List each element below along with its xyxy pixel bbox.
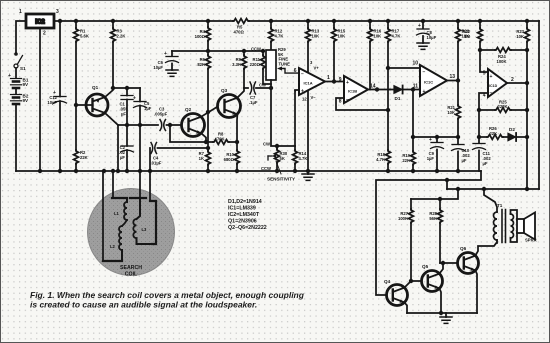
op-amp IC1b LM339 bbox=[339, 76, 376, 105]
svg-text:10K: 10K bbox=[374, 34, 382, 39]
svg-text:Q2: Q2 bbox=[185, 107, 192, 112]
svg-text:CCW: CCW bbox=[251, 47, 261, 52]
wire emitter ground bus bbox=[407, 312, 477, 314]
capacitor C1 .055uF bbox=[120, 88, 134, 125]
wire integrator node bbox=[413, 136, 458, 138]
svg-text:9V: 9V bbox=[23, 98, 30, 103]
svg-text:2: 2 bbox=[43, 31, 46, 37]
battery B1 9V bbox=[8, 68, 29, 88]
transistor Q4 2N2222 bbox=[384, 279, 408, 306]
wire R23 node down to output bbox=[526, 50, 528, 83]
wire Q5 collector to Q6 base bbox=[439, 263, 457, 274]
svg-text:IC1B: IC1B bbox=[348, 89, 357, 94]
wire IC2 pin2 down to ground rail bbox=[39, 28, 41, 171]
wire ground rail step down to Q4 base feed bbox=[376, 171, 481, 295]
svg-text:1µF: 1µF bbox=[427, 156, 435, 161]
wire output column down bbox=[526, 83, 528, 189]
svg-text:Q1=2N3906: Q1=2N3906 bbox=[228, 219, 257, 225]
resistor R5 470ohm (in top rail) bbox=[233, 19, 249, 24]
svg-text:+: + bbox=[423, 89, 426, 95]
wire coil lead A bbox=[102, 171, 104, 261]
wire R17 node to IC1c pin 10 bbox=[388, 67, 420, 69]
wire bottom ground rail bbox=[16, 170, 481, 172]
svg-text:10µF: 10µF bbox=[47, 100, 57, 105]
svg-text:IC2: IC2 bbox=[35, 20, 45, 26]
svg-text:680Ω: 680Ω bbox=[224, 157, 235, 162]
svg-text:T1: T1 bbox=[497, 203, 503, 208]
wire Q2 collector to Q3 base bbox=[201, 107, 217, 117]
wire Q4 emitter down bbox=[404, 302, 407, 313]
svg-text:−: − bbox=[490, 91, 493, 97]
svg-text:1M: 1M bbox=[464, 34, 470, 39]
potentiometer R30 5K SENSITIVITY bbox=[261, 142, 295, 182]
resistor R8 470K bbox=[213, 132, 237, 145]
wire step joining distribution bbox=[446, 180, 448, 189]
svg-text:5: 5 bbox=[483, 71, 486, 77]
wire IC1b pin 8 feedback loop bbox=[336, 98, 388, 110]
svg-text:10µF: 10µF bbox=[153, 65, 163, 70]
parts list note bbox=[228, 199, 267, 231]
svg-text:1: 1 bbox=[19, 9, 22, 15]
potentiometer R29 5K FINE TUNE bbox=[251, 47, 299, 89]
wire coil lead C bbox=[139, 171, 141, 198]
svg-text:1: 1 bbox=[327, 75, 330, 81]
svg-text:SPKR: SPKR bbox=[525, 238, 537, 243]
resistor R23 10K bbox=[516, 21, 529, 50]
svg-text:CW: CW bbox=[263, 142, 270, 147]
wire IC2 pin1 to battery column bbox=[16, 21, 26, 54]
ground symbol below rail at IC1a bbox=[302, 171, 314, 180]
wire coil lead D bbox=[149, 171, 151, 201]
capacitor C8 10uF with ground bbox=[417, 21, 437, 49]
wire oscillator node horizontal bbox=[118, 124, 158, 126]
wire distribution node to transformer primary top bbox=[484, 189, 497, 212]
svg-text:220Ω: 220Ω bbox=[250, 62, 261, 67]
coil shield right bbox=[150, 201, 156, 244]
svg-text:−: − bbox=[346, 97, 349, 103]
svg-text:6: 6 bbox=[294, 68, 297, 74]
wire lower distribution horizontal bbox=[447, 188, 539, 190]
capacitor C9 1uF bbox=[427, 137, 444, 171]
op-amp IC1d LM339 bbox=[483, 69, 514, 99]
resistor R3 2.2K bbox=[111, 21, 126, 88]
svg-text:+: + bbox=[429, 137, 432, 143]
wire Q6 emitter down bbox=[475, 270, 477, 313]
resistor R22 1M bbox=[462, 21, 482, 50]
svg-text:D2: D2 bbox=[509, 127, 515, 132]
wire R14 node up to IC1a pin 7 bbox=[295, 90, 299, 146]
resistor R7 1K bbox=[199, 148, 211, 171]
svg-text:220K: 220K bbox=[498, 104, 508, 109]
svg-text:82K: 82K bbox=[197, 62, 205, 67]
speaker SPKR bbox=[517, 213, 537, 243]
resistor R6 82K bbox=[197, 51, 210, 148]
wire coil lead B bbox=[112, 171, 114, 198]
svg-text:is created to cause an audible: is created to cause an audible signal at… bbox=[30, 300, 257, 310]
capacitor C11 .002uF bbox=[473, 137, 492, 171]
svg-text:1µF: 1µF bbox=[144, 106, 152, 111]
resistor R27 100K bbox=[398, 199, 413, 281]
svg-text:Fig. 1. When the search coil c: Fig. 1. When the search coil covers a me… bbox=[30, 290, 305, 300]
op-amp IC1a LM339 bbox=[294, 60, 330, 102]
wire top supply rail bbox=[54, 20, 539, 22]
svg-text:CCW: CCW bbox=[261, 166, 271, 171]
inductor L1 bbox=[114, 198, 127, 226]
svg-text:9V: 9V bbox=[23, 82, 30, 87]
svg-text:IC1=LM339: IC1=LM339 bbox=[228, 206, 256, 212]
svg-text:3.3K: 3.3K bbox=[232, 62, 241, 67]
svg-text:22K: 22K bbox=[490, 131, 498, 136]
svg-text:100K: 100K bbox=[497, 59, 507, 64]
capacitor C3 .005uF bbox=[154, 107, 182, 131]
wire secondary to speaker bbox=[511, 210, 518, 242]
capacitor C5 1uF bbox=[133, 88, 152, 125]
transistor Q2 2N2222 bbox=[182, 107, 205, 137]
svg-text:2.2K: 2.2K bbox=[117, 34, 126, 39]
wire Q6 collector to transformer primary bottom bbox=[475, 242, 497, 256]
svg-text:22K: 22K bbox=[402, 158, 410, 163]
resistor R24 100K bbox=[480, 48, 527, 64]
svg-text:22K: 22K bbox=[80, 155, 88, 160]
wire Q1 collector to oscillator node bbox=[105, 113, 118, 125]
capacitor C2 .02uF bbox=[119, 125, 133, 171]
transistor Q1 2N3906 bbox=[76, 85, 108, 116]
resistor R13 10K bbox=[306, 21, 320, 73]
coil inner bar left bbox=[112, 197, 127, 199]
resistor R10 680ohm bbox=[224, 142, 240, 171]
svg-text:.005µF: .005µF bbox=[154, 112, 168, 117]
svg-text:−: − bbox=[423, 70, 426, 76]
battery B2 9V bbox=[11, 88, 30, 104]
svg-text:13: 13 bbox=[450, 74, 456, 80]
svg-text:V−: V− bbox=[311, 95, 317, 100]
svg-text:4.7K: 4.7K bbox=[275, 34, 284, 39]
svg-text:CW: CW bbox=[259, 83, 266, 88]
IC2 regulator LM340T bbox=[26, 14, 54, 28]
svg-text:+: + bbox=[164, 51, 167, 57]
wire bias node horizontal bbox=[172, 50, 263, 52]
capacitor C4 .01uF bbox=[150, 143, 208, 172]
resistor R11 220ohm bbox=[250, 51, 271, 84]
switch S1 bbox=[14, 52, 26, 71]
op-amp IC1c LM339 bbox=[412, 61, 455, 97]
svg-text:10K: 10K bbox=[516, 34, 524, 39]
svg-text:IC1C: IC1C bbox=[424, 80, 433, 85]
svg-text:4.7K: 4.7K bbox=[376, 157, 385, 162]
resistor R9 3.3K bbox=[232, 51, 246, 88]
wire IC1a output to IC1b input bbox=[325, 81, 344, 83]
resistor R14 4.7K bbox=[293, 146, 308, 171]
svg-text:10: 10 bbox=[412, 61, 418, 67]
resistor R19 22K bbox=[402, 90, 415, 172]
svg-text:µF: µF bbox=[462, 158, 467, 163]
svg-text:10K: 10K bbox=[338, 34, 346, 39]
svg-text:D1,D2=1N914: D1,D2=1N914 bbox=[228, 199, 262, 205]
svg-text:Q3: Q3 bbox=[221, 88, 228, 93]
svg-text:S1: S1 bbox=[20, 66, 26, 71]
svg-text:L1: L1 bbox=[114, 211, 120, 216]
wire Q4 collector to Q5 base bbox=[404, 281, 421, 288]
search coil shielded assembly bbox=[88, 189, 175, 276]
svg-text:12: 12 bbox=[302, 97, 307, 102]
svg-text:+: + bbox=[346, 80, 349, 86]
svg-text:100Ω: 100Ω bbox=[195, 34, 206, 39]
wire Q2 base loop down bbox=[170, 125, 213, 142]
svg-text:470K: 470K bbox=[215, 137, 225, 142]
svg-text:10µF: 10µF bbox=[427, 35, 437, 40]
resistor R12 4.7K bbox=[269, 21, 284, 50]
svg-text:µF: µF bbox=[483, 161, 488, 166]
resistor R20 10K bbox=[456, 21, 470, 81]
svg-text:V+: V+ bbox=[314, 66, 320, 71]
coil shield bottom bbox=[103, 260, 122, 262]
wire IC1c output bbox=[447, 80, 458, 82]
wire IC1a V- pin 12 to ground bbox=[307, 91, 309, 172]
wire Q1 emitter to R3 column bbox=[105, 88, 113, 97]
svg-text:−: − bbox=[301, 72, 304, 78]
svg-text:IC1A: IC1A bbox=[304, 81, 313, 86]
svg-text:Q2–Q6=2N2222: Q2–Q6=2N2222 bbox=[228, 225, 267, 231]
ground symbol output stage bbox=[440, 313, 452, 323]
diode D2 1N914 bbox=[503, 127, 527, 141]
svg-text:D1: D1 bbox=[395, 96, 401, 101]
svg-text:8: 8 bbox=[339, 99, 342, 105]
svg-text:+: + bbox=[8, 73, 11, 79]
wire R27 R28 feed bbox=[411, 189, 458, 199]
diode D1 1N914 bbox=[390, 86, 420, 102]
svg-text:+: + bbox=[418, 23, 421, 29]
svg-text:56K: 56K bbox=[429, 216, 437, 221]
svg-text:3: 3 bbox=[56, 9, 59, 15]
svg-text:L3: L3 bbox=[142, 227, 148, 232]
wire C5 column down across rail (coil lead) bbox=[139, 125, 141, 171]
capacitor C12 10uF (in column) bbox=[47, 21, 66, 171]
wire IC1d pin 4 column bbox=[479, 93, 488, 137]
resistor R15 10K bbox=[332, 21, 346, 82]
wire right supply column down bbox=[538, 21, 540, 189]
resistor R25 220K bbox=[479, 100, 527, 113]
wire IC1d output to feedback column bbox=[507, 82, 527, 84]
wire emitter node to capacitor tops bbox=[113, 87, 140, 89]
svg-text:4.7K: 4.7K bbox=[299, 156, 308, 161]
transformer T1 bbox=[494, 203, 514, 243]
resistor R17 4.7K bbox=[386, 21, 401, 110]
resistor R1 5.6K bbox=[74, 21, 89, 105]
svg-text:10K: 10K bbox=[447, 110, 455, 115]
transistor Q3 2N2222 bbox=[218, 88, 241, 118]
svg-text:IC2=LM340T: IC2=LM340T bbox=[228, 212, 260, 218]
svg-text:µF: µF bbox=[120, 155, 125, 160]
svg-text:5.6K: 5.6K bbox=[80, 34, 89, 39]
svg-text:Q5: Q5 bbox=[422, 264, 429, 269]
svg-text:.01µF: .01µF bbox=[151, 161, 162, 166]
svg-text:SENSITIVITY: SENSITIVITY bbox=[267, 177, 295, 182]
svg-text:1K: 1K bbox=[199, 156, 204, 161]
capacitor C10 .002uF bbox=[452, 145, 471, 172]
resistor R18 4.7K bbox=[376, 110, 390, 171]
svg-text:TUNE: TUNE bbox=[279, 62, 291, 67]
resistor R16 10K bbox=[368, 21, 382, 90]
wire Q5 emitter down bbox=[439, 288, 441, 313]
svg-text:+: + bbox=[301, 89, 304, 95]
wire Q3 emitter down to R10 bbox=[236, 114, 238, 142]
svg-text:µF: µF bbox=[121, 112, 126, 117]
svg-text:2: 2 bbox=[511, 77, 514, 83]
svg-text:+: + bbox=[133, 96, 136, 102]
svg-text:Q1: Q1 bbox=[92, 85, 99, 90]
svg-text:Q6: Q6 bbox=[460, 246, 467, 251]
resistor R26 22K bbox=[479, 126, 503, 139]
resistor R28 56K bbox=[429, 199, 442, 263]
inductor L3 bbox=[133, 198, 152, 244]
inductor L2 bbox=[110, 226, 122, 261]
svg-text:470Ω: 470Ω bbox=[234, 30, 245, 35]
transistor Q6 2N2222 bbox=[458, 246, 479, 274]
wire pot wiper column down to sensitivity node bbox=[271, 88, 295, 146]
svg-text:7: 7 bbox=[294, 90, 297, 96]
svg-text:4.7K: 4.7K bbox=[392, 34, 401, 39]
svg-text:9: 9 bbox=[339, 77, 342, 83]
svg-text:IC1D: IC1D bbox=[489, 84, 498, 88]
svg-text:5K: 5K bbox=[280, 156, 285, 161]
wire collector branch to ground rail bbox=[117, 125, 119, 171]
resistor R2 22K bbox=[74, 105, 88, 171]
svg-text:Q4: Q4 bbox=[384, 279, 391, 284]
svg-text:SEARCH: SEARCH bbox=[120, 265, 142, 271]
svg-text:.1µF: .1µF bbox=[249, 100, 258, 105]
svg-text:L2: L2 bbox=[110, 244, 116, 249]
svg-text:+: + bbox=[490, 74, 493, 80]
resistor R21 10K bbox=[447, 81, 460, 145]
capacitor C6 10uF with ground bbox=[153, 51, 178, 76]
svg-text:COIL: COIL bbox=[125, 272, 138, 278]
svg-text:10K: 10K bbox=[312, 34, 320, 39]
transistor Q5 2N2222 bbox=[422, 264, 443, 292]
capacitor C7 .1uF bbox=[244, 82, 271, 105]
wire Q2 emitter to R8 wire bbox=[201, 133, 206, 142]
resistor R4 100ohm bbox=[195, 21, 211, 51]
svg-text:100K: 100K bbox=[398, 216, 408, 221]
wire IC1b output bbox=[368, 89, 390, 91]
wire battery to ground rail bbox=[15, 104, 17, 171]
wire Q3 collector up to R9 bbox=[237, 88, 244, 98]
coil inner bar right bbox=[130, 197, 146, 199]
wire R22 node to IC1d pin 5 bbox=[480, 50, 488, 72]
